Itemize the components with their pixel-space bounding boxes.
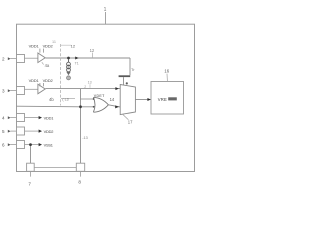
svg-text:4a: 4a (45, 63, 50, 68)
svg-text:13: 13 (88, 81, 92, 85)
svg-text:VDD2: VDD2 (43, 78, 54, 83)
pin 2 label (2, 57, 17, 62)
supply ticks into amp1 (39, 49, 41, 53)
arrowhead into block 16 (147, 98, 150, 101)
pin 5 row (2, 127, 53, 135)
svg-text:12: 12 (90, 48, 95, 53)
wire pad3 to amp2 (25, 88, 38, 90)
wire amp2 to driver (45, 88, 120, 90)
vertical net to bottom pad (80, 89, 82, 164)
main wire node 12 (45, 57, 130, 59)
OR gate 14 (93, 97, 108, 112)
svg-text:VDD1: VDD1 (29, 44, 40, 49)
pad P3 (17, 87, 25, 95)
svg-text:VDD1: VDD1 (29, 78, 40, 83)
op-amp A1 (38, 53, 45, 63)
junction dot (79, 105, 82, 108)
block 16 VREG (151, 82, 184, 115)
current source I1 (67, 59, 71, 72)
node 1 (chip designation leader) (104, 7, 107, 24)
svg-text:Tr: Tr (131, 67, 135, 72)
svg-text:8: 8 (78, 179, 81, 184)
pin 4 row (2, 114, 53, 122)
svg-text:4: 4 (2, 116, 5, 121)
wire pin6 down to pad 7 (30, 146, 32, 163)
svg-text:VSS1: VSS1 (44, 142, 53, 147)
svg-text:VDD2: VDD2 (44, 129, 54, 134)
label L3 microtext (61, 98, 75, 100)
svg-text:17: 17 (128, 120, 133, 125)
svg-text:16: 16 (164, 69, 169, 74)
svg-text:3: 3 (2, 89, 5, 94)
svg-text:4b: 4b (49, 97, 54, 102)
arrowhead into driver top (115, 87, 118, 90)
junction node dot (67, 57, 70, 60)
wire between bottom pads (34, 167, 76, 169)
chip outline 20 (17, 24, 195, 171)
svg-text:( L3: ( L3 (62, 97, 68, 101)
svg-text:12: 12 (71, 43, 76, 48)
svg-text:VRE: VRE (158, 97, 167, 102)
svg-text:11: 11 (52, 40, 56, 44)
svg-text:2: 2 (2, 57, 5, 62)
gate top input wire (81, 98, 95, 100)
bottom pad 8 (76, 163, 84, 171)
label 17 (123, 114, 129, 120)
leader to 12a (61, 44, 72, 46)
pin 6 row (2, 141, 53, 149)
wire from left border (17, 105, 95, 108)
svg-text:7: 7 (28, 181, 31, 186)
svg-text:-13: -13 (82, 136, 88, 140)
op-amp A2 (38, 84, 45, 94)
svg-text:VDD1: VDD1 (44, 115, 54, 120)
driver block 17 (trapezoid) (120, 85, 135, 115)
arrowhead on main wire (75, 57, 78, 60)
pad P2 (17, 55, 25, 63)
svg-text:2: 2 (84, 85, 86, 89)
svg-text:6: 6 (2, 143, 5, 148)
wire pad2 to amp1 (25, 57, 38, 59)
svg-text:VDD2: VDD2 (43, 44, 54, 49)
arrowhead into driver (115, 105, 119, 108)
svg-text:VDET: VDET (94, 94, 105, 98)
svg-text:14: 14 (110, 97, 115, 102)
pin 3 label (2, 89, 17, 94)
chain boundary line 11 (60, 44, 62, 106)
supply ticks into amp2 (39, 83, 41, 86)
svg-text:5: 5 (2, 129, 5, 134)
gate output wire (108, 105, 120, 107)
svg-text:T1: T1 (75, 61, 79, 65)
label 4a (42, 62, 44, 64)
transistor Tr above driver (119, 58, 136, 85)
bottom pad 7 (27, 163, 35, 171)
driver output wire (136, 99, 151, 101)
